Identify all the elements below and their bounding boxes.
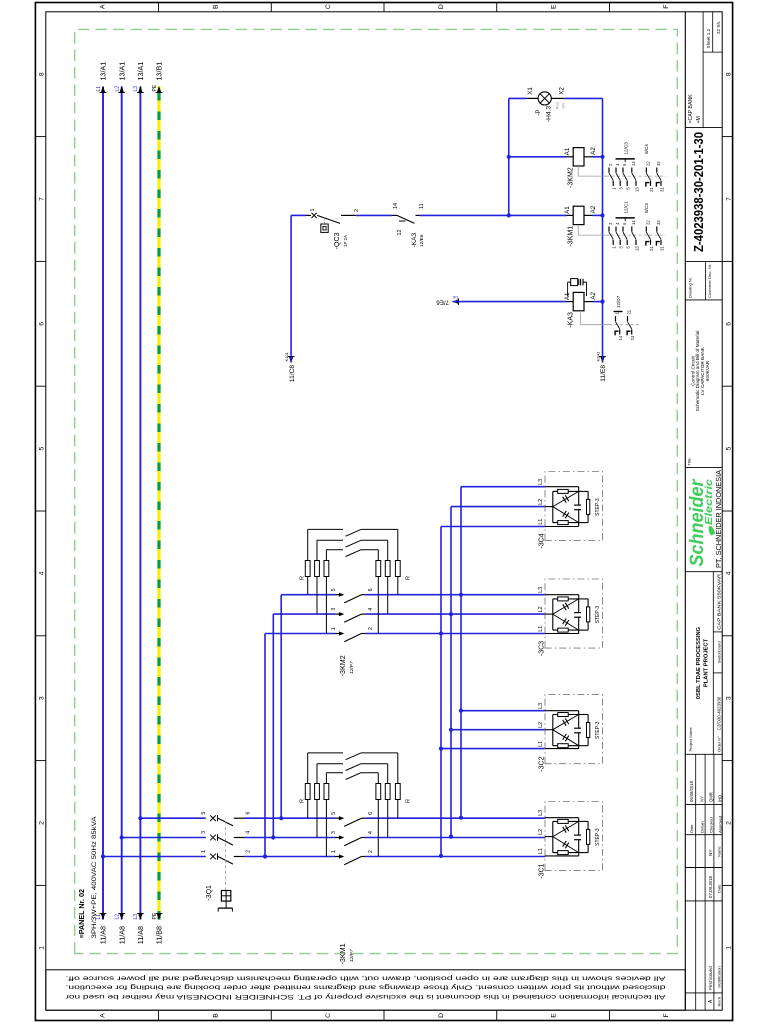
svg-text:1: 1 xyxy=(39,946,46,950)
svg-text:L3: L3 xyxy=(538,810,544,816)
svg-text:L3: L3 xyxy=(538,587,544,593)
switch -3Q1 operating handle box xyxy=(221,891,230,902)
relay -KA3 cross reference label xyxy=(614,311,623,313)
svg-text:B: B xyxy=(212,1013,219,1018)
svg-text:PE: PE xyxy=(152,912,158,919)
svg-text:13/A1: 13/A1 xyxy=(117,62,126,81)
wire bus tap to -3Q1 pole 3 xyxy=(120,835,124,839)
svg-text:Approved: Approved xyxy=(718,816,723,833)
capacitor unit -3C4 internal connections xyxy=(545,526,579,528)
svg-text:E: E xyxy=(551,1013,558,1018)
svg-text:6: 6 xyxy=(725,322,732,326)
svg-text:STEP-3: STEP-3 xyxy=(595,498,601,516)
bypass return resistor xyxy=(377,773,379,784)
feeder bus L2 to capacitor steps xyxy=(450,507,452,837)
svg-text:-QC3: -QC3 xyxy=(334,232,341,249)
contactor -3KM1 main contact 5-6 xyxy=(339,816,344,820)
svg-text:5: 5 xyxy=(39,446,46,450)
svg-text:1: 1 xyxy=(201,850,207,853)
svg-text:3: 3 xyxy=(619,246,624,249)
circuit breaker -QC3 xyxy=(306,214,311,216)
svg-text:A2: A2 xyxy=(590,291,597,299)
svg-text:L1: L1 xyxy=(538,626,544,632)
switch -3Q1 pole 3-4 xyxy=(122,837,206,839)
feeder drop to -3C4 L1 xyxy=(441,526,545,528)
svg-text:22: 22 xyxy=(646,220,651,225)
svg-text:-3C1: -3C1 xyxy=(539,863,546,878)
bus L1 left off-page arrow 11/A8 xyxy=(101,913,106,920)
capacitor unit -3C2 internal connections xyxy=(545,748,579,750)
svg-text:L1: L1 xyxy=(538,741,544,747)
bus L1 right off-page arrow 13/A1 xyxy=(101,86,106,93)
svg-text:F: F xyxy=(663,1013,670,1017)
svg-text:7: 7 xyxy=(39,197,46,201)
svg-text:K1H1: K1H1 xyxy=(595,351,600,362)
coil -3KM2 xyxy=(567,156,574,158)
L3 bus wire xyxy=(139,87,141,920)
svg-text:2: 2 xyxy=(368,850,374,853)
svg-text:A: A xyxy=(100,4,107,9)
capacitor unit -3C3 discharge resistor xyxy=(579,629,588,631)
svg-text:A1: A1 xyxy=(564,206,571,214)
contactor -3KM1 main contact 3-4 xyxy=(339,835,344,839)
feeder bus L3 to capacitor steps xyxy=(460,487,462,818)
svg-text:≡PANEL Nr. 02: ≡PANEL Nr. 02 xyxy=(77,889,86,938)
svg-text:13: 13 xyxy=(634,246,639,251)
svg-text:A1: A1 xyxy=(564,147,571,155)
svg-text:5: 5 xyxy=(725,446,732,450)
svg-text:L2: L2 xyxy=(538,722,544,728)
wire rung -KA3 coil from 7/E6 xyxy=(452,299,459,304)
capacitor unit -3C4 bottom rail with middle capacitor xyxy=(578,510,580,527)
svg-text:6: 6 xyxy=(368,812,374,815)
control rail 2 to 11/E8 xyxy=(600,356,605,363)
svg-text:14: 14 xyxy=(618,335,623,340)
svg-text:Modification: Modification xyxy=(716,966,721,987)
svg-text:12/E6: 12/E6 xyxy=(419,234,425,247)
svg-text:A2: A2 xyxy=(590,205,597,213)
bypass resistor branch xyxy=(316,800,318,838)
capacitor unit -3C1 dash-dot enclosure xyxy=(545,802,603,871)
svg-text:-3Q1: -3Q1 xyxy=(206,885,213,901)
feeder bus L1 to capacitor steps xyxy=(440,527,442,856)
bypass return resistor xyxy=(387,764,389,784)
capacitor unit -3C3 dash-dot enclosure xyxy=(545,579,603,648)
svg-text:X1: X1 xyxy=(527,87,534,95)
capacitor unit -3C3 delta capacitors xyxy=(553,614,579,630)
svg-text:STEP-3: STEP-3 xyxy=(595,828,601,846)
svg-text:2: 2 xyxy=(608,163,613,166)
svg-text:1P 2A: 1P 2A xyxy=(343,235,348,247)
L1 bus wire xyxy=(102,87,104,920)
control feed wire from 11/C8 xyxy=(289,356,294,363)
svg-text:6: 6 xyxy=(39,322,46,326)
svg-text:7/E6: 7/E6 xyxy=(436,299,449,306)
capacitor unit -3C2 discharge resistor xyxy=(579,745,588,747)
svg-text:2: 2 xyxy=(368,627,374,630)
svg-text:D8: D8 xyxy=(453,295,458,299)
svg-text:-3C2: -3C2 xyxy=(539,756,546,771)
svg-text:24: 24 xyxy=(630,335,635,340)
contactor -3KM2 main contact 3-4 xyxy=(339,612,344,616)
svg-text:6: 6 xyxy=(246,812,252,815)
svg-text:2: 2 xyxy=(354,209,360,212)
order number cells xyxy=(713,672,722,674)
svg-text:-KA3: -KA3 xyxy=(568,312,575,328)
bus PE right off-page arrow 13/B1 xyxy=(157,86,162,93)
svg-text:5: 5 xyxy=(201,812,207,815)
disclaimer text box left margin xyxy=(46,970,686,1010)
bus L2 right off-page arrow 13/A1 xyxy=(119,86,124,93)
sheet cells xyxy=(703,51,722,53)
wire -3KM1 pole 1 down to -3C1 xyxy=(366,856,546,858)
cross reference bracket and labels xyxy=(616,158,635,160)
bypass auxiliary contact xyxy=(346,529,361,536)
branch wire to -3KM2 xyxy=(271,835,275,839)
feeder drop to -3C2 L1 xyxy=(441,748,545,750)
svg-text:5: 5 xyxy=(626,187,631,190)
svg-text:Rev.N: Rev.N xyxy=(717,996,721,1006)
svg-text:R: R xyxy=(406,799,412,803)
svg-text:C2/O30-4023930: C2/O30-4023930 xyxy=(717,696,722,730)
svg-text:1: 1 xyxy=(612,187,617,190)
svg-text:11: 11 xyxy=(419,203,425,209)
svg-text:31: 31 xyxy=(659,246,664,251)
svg-text:12/C1: 12/C1 xyxy=(624,201,629,214)
svg-text:1: 1 xyxy=(331,627,337,630)
svg-text:21: 21 xyxy=(649,246,654,251)
svg-text:D: D xyxy=(438,1013,445,1018)
svg-text:D: D xyxy=(438,4,445,9)
PE bus yellow/green line xyxy=(157,87,160,920)
svg-text:L2: L2 xyxy=(538,499,544,505)
bypass resistor branch xyxy=(325,800,327,857)
bus L3 right off-page arrow 13/A1 xyxy=(138,86,143,93)
svg-text:4: 4 xyxy=(615,222,620,225)
svg-text:L2: L2 xyxy=(115,86,121,92)
svg-text:4: 4 xyxy=(39,571,46,575)
svg-text:8/C3: 8/C3 xyxy=(644,203,649,213)
svg-text:8/C4: 8/C4 xyxy=(644,144,649,154)
svg-text:06/08/2018: 06/08/2018 xyxy=(689,780,694,802)
svg-text:A2: A2 xyxy=(590,147,597,155)
svg-text:Checked: Checked xyxy=(709,817,714,833)
capacitor unit -3C4 dash-dot enclosure xyxy=(545,472,603,541)
project name section xyxy=(712,572,714,755)
branch wire to -3KM2 xyxy=(279,816,283,820)
switch -3Q1 pole 1-2 xyxy=(103,856,206,858)
svg-text:11/A8: 11/A8 xyxy=(117,926,126,944)
svg-text:6: 6 xyxy=(622,222,627,225)
capacitor unit -3C1 frame with series resistors xyxy=(552,821,554,852)
wire -3KM2 pole 3 down to -3C3 xyxy=(366,613,546,615)
svg-text:7: 7 xyxy=(725,197,732,201)
capacitor unit -3C3 internal connections xyxy=(545,633,579,635)
svg-text:32: 32 xyxy=(656,161,661,166)
capacitor unit -3C2 bottom rail with middle capacitor xyxy=(578,733,580,749)
svg-text:R: R xyxy=(300,799,306,803)
capacitor unit -3C3 bottom rail with middle capacitor xyxy=(578,617,580,633)
relay contact -KA3 12/E6 xyxy=(392,214,397,216)
svg-text:4: 4 xyxy=(368,831,374,834)
svg-text:Title: Title xyxy=(686,457,691,465)
capacitor unit -3C1 bottom rail with middle capacitor xyxy=(578,840,580,856)
cross reference bracket and labels xyxy=(616,217,635,219)
title section xyxy=(685,299,722,301)
svg-text:32: 32 xyxy=(656,220,661,225)
svg-text:1: 1 xyxy=(612,246,617,249)
bypass resistor branch xyxy=(307,800,309,819)
svg-text:PLANT PROJECT: PLANT PROJECT xyxy=(704,638,710,687)
svg-text:11/E8: 11/E8 xyxy=(600,365,607,382)
title block top edge xyxy=(684,12,686,1010)
drawing number section xyxy=(685,260,722,262)
svg-text:NY: NY xyxy=(708,850,713,856)
svg-text:5: 5 xyxy=(331,812,337,815)
L2 bus wire xyxy=(121,87,123,920)
svg-text:L3: L3 xyxy=(538,703,544,709)
svg-text:Drawn: Drawn xyxy=(699,821,704,833)
wire bus tap to -3Q1 pole 1 xyxy=(101,854,105,858)
svg-text:3: 3 xyxy=(39,696,46,700)
wire -QC3 to -KA3 contact xyxy=(356,214,392,216)
wire -3Q1 to -3KM1 pole 1 xyxy=(244,856,335,858)
svg-text:-3C3: -3C3 xyxy=(539,641,546,656)
bypass auxiliary contact xyxy=(346,540,361,547)
bypass resistor branch xyxy=(316,577,318,615)
svg-text:14: 14 xyxy=(631,220,636,225)
bypass auxiliary contact xyxy=(346,753,361,760)
svg-text:Project Name: Project Name xyxy=(688,726,693,751)
svg-text:1: 1 xyxy=(331,850,337,853)
svg-text:L2: L2 xyxy=(538,606,544,612)
svg-text:2: 2 xyxy=(608,222,613,225)
capacitor unit -3C2 frame with series resistors xyxy=(552,715,554,746)
control rail 1 xyxy=(508,98,510,215)
svg-text:3: 3 xyxy=(725,696,732,700)
relay -KA3 contact cross reference table xyxy=(581,313,609,325)
wire rung -3KM2 coil xyxy=(509,156,567,158)
svg-text:6: 6 xyxy=(622,163,627,166)
svg-text:13/B1: 13/B1 xyxy=(155,62,164,81)
svg-text:Name: Name xyxy=(716,846,721,857)
svg-text:14: 14 xyxy=(631,161,636,166)
svg-text:5: 5 xyxy=(331,588,337,591)
bypass auxiliary contact xyxy=(346,764,361,771)
svg-text:+M: +M xyxy=(696,116,702,123)
svg-text:21: 21 xyxy=(627,309,632,314)
bypass auxiliary contact xyxy=(346,773,361,780)
bypass return resistor xyxy=(397,529,399,560)
svg-text:ON: ON xyxy=(561,103,565,109)
svg-text:22: 22 xyxy=(646,161,651,166)
svg-text:IHD: IHD xyxy=(718,795,723,802)
svg-text:11/A8: 11/A8 xyxy=(136,926,145,944)
breaker -QC3 thermal element xyxy=(321,224,328,232)
svg-text:=CAP BANK: =CAP BANK xyxy=(688,94,694,124)
svg-text:-3KM2: -3KM2 xyxy=(338,655,347,676)
svg-text:4: 4 xyxy=(725,571,732,575)
svg-text:L1: L1 xyxy=(96,914,102,920)
svg-text:PT. SCHNEIDER INDONESIA: PT. SCHNEIDER INDONESIA xyxy=(714,469,723,568)
capacitor unit -3C4 frame with series resistors xyxy=(552,491,554,522)
svg-text:CAP BANK 550KVAR: CAP BANK 550KVAR xyxy=(717,574,722,630)
svg-text:13: 13 xyxy=(634,187,639,192)
function designation box =CAP BANK +M xyxy=(685,127,722,129)
svg-text:3: 3 xyxy=(201,831,207,834)
svg-text:8: 8 xyxy=(39,72,46,76)
contactor -3KM1 main contact 1-2 xyxy=(339,854,344,858)
bypass resistor branch xyxy=(307,577,309,595)
svg-text:F: F xyxy=(663,5,670,9)
svg-text:L2: L2 xyxy=(115,914,121,920)
svg-text:-3KM1: -3KM1 xyxy=(338,943,347,964)
svg-text:X2: X2 xyxy=(558,87,565,95)
svg-text:Red: Red xyxy=(556,102,560,109)
svg-text:L1: L1 xyxy=(96,86,102,92)
svg-text:disclosed without its prior wr: disclosed without its prior written cons… xyxy=(65,984,665,991)
svg-text:3: 3 xyxy=(619,187,624,190)
svg-text:3: 3 xyxy=(331,831,337,834)
svg-text:L1: L1 xyxy=(538,848,544,854)
svg-text:E: E xyxy=(551,4,558,9)
contactor -3KM2 main contact 1-2 xyxy=(339,631,344,635)
svg-text:QMR: QMR xyxy=(709,792,714,802)
wire -3Q1 to -3KM1 pole 3 xyxy=(244,837,335,839)
switch -3Q1 handle bar xyxy=(218,907,232,909)
svg-text:2: 2 xyxy=(39,821,46,825)
svg-text:12: 12 xyxy=(397,230,403,236)
svg-text:0SBL TDAE PROCESSING: 0SBL TDAE PROCESSING xyxy=(696,626,702,699)
svg-text:NY: NY xyxy=(699,796,704,802)
svg-text:4: 4 xyxy=(246,831,252,834)
switch -3Q1 mechanism dashed link xyxy=(225,818,227,890)
branch wire to -3KM2 xyxy=(263,854,267,858)
svg-text:11/A8: 11/A8 xyxy=(99,926,108,944)
svg-text:Switchboard: Switchboard xyxy=(717,641,722,663)
coil -3KM1 xyxy=(567,214,574,216)
contact cross reference table xyxy=(578,225,606,236)
svg-text:A: A xyxy=(708,999,714,1003)
svg-text:3: 3 xyxy=(331,608,337,611)
coil -KA3 xyxy=(567,301,574,303)
svg-text:14: 14 xyxy=(393,203,399,209)
svg-text:-P: -P xyxy=(535,110,542,116)
wire -KA3 contact to rail junction xyxy=(420,214,567,216)
svg-text:5: 5 xyxy=(626,246,631,249)
svg-text:-H4.3: -H4.3 xyxy=(546,106,553,122)
feeder drop to -3C2 L3 xyxy=(461,710,545,712)
svg-text:PE: PE xyxy=(152,84,158,91)
svg-text:Sheet 1.2: Sheet 1.2 xyxy=(706,28,711,48)
bus L2 left off-page arrow 11/A8 xyxy=(119,913,124,920)
wire -3KM2 pole 1 down to -3C3 xyxy=(366,633,546,635)
svg-text:A: A xyxy=(100,1013,107,1018)
svg-text:6: 6 xyxy=(368,588,374,591)
svg-text:12/P7: 12/P7 xyxy=(349,949,355,962)
svg-text:2: 2 xyxy=(246,850,252,853)
svg-text:2: 2 xyxy=(725,821,732,825)
capacitor unit -3C4 discharge resistor xyxy=(579,522,588,524)
svg-text:L1: L1 xyxy=(538,519,544,525)
svg-text:11/B8: 11/B8 xyxy=(155,926,164,944)
svg-text:-KA3: -KA3 xyxy=(411,233,418,248)
wire bus tap to -3Q1 pole 5 xyxy=(138,816,142,820)
svg-text:All technical information cont: All technical information contained in t… xyxy=(64,993,665,1000)
svg-text:STEP-3: STEP-3 xyxy=(595,606,601,624)
svg-text:Date: Date xyxy=(689,824,694,833)
feeder drop to -3C2 L2 xyxy=(451,729,545,731)
svg-text:L3: L3 xyxy=(133,86,139,92)
svg-text:All devices shown in this diag: All devices shown in this diagram are in… xyxy=(65,975,665,982)
svg-text:31: 31 xyxy=(659,187,664,192)
revision table xyxy=(685,992,722,994)
bypass return resistor xyxy=(397,753,399,784)
svg-text:L3: L3 xyxy=(133,914,139,920)
bypass auxiliary contact xyxy=(346,550,361,557)
svg-text:L2: L2 xyxy=(538,829,544,835)
svg-text:13/A1: 13/A1 xyxy=(99,62,108,81)
svg-text:12/P7: 12/P7 xyxy=(349,661,355,674)
feeder drop to -3C4 L3 xyxy=(461,486,545,488)
feeder drop to -3C4 L2 xyxy=(451,506,545,508)
suppressor module on -KA3 coil xyxy=(571,279,578,286)
svg-text:Date: Date xyxy=(716,884,721,893)
contact cross reference table xyxy=(578,166,606,176)
bypass return resistor xyxy=(377,550,379,561)
capacitor unit -3C1 discharge resistor xyxy=(579,852,588,854)
svg-text:-3KM2: -3KM2 xyxy=(568,167,575,188)
svg-text:Customer Doc. Nr.: Customer Doc. Nr. xyxy=(708,264,712,298)
wire -3KM2 pole 5 down to -3C3 xyxy=(366,594,546,596)
svg-text:21: 21 xyxy=(649,187,654,192)
svg-text:Drawing Nr.: Drawing Nr. xyxy=(687,277,692,298)
bypass return resistor xyxy=(387,540,389,560)
svg-text:12/C3: 12/C3 xyxy=(624,142,629,155)
svg-text:4: 4 xyxy=(615,163,620,166)
capacitor unit -3C4 delta capacitors xyxy=(553,507,579,523)
svg-text:STEP-3: STEP-3 xyxy=(595,721,601,739)
svg-text:11/C8: 11/C8 xyxy=(289,365,296,382)
svg-text:C: C xyxy=(325,1013,332,1018)
svg-text:Order N°: Order N° xyxy=(717,736,722,752)
svg-text:R: R xyxy=(406,576,412,580)
wire -3Q1 to -3KM1 pole 5 xyxy=(244,817,335,819)
bus L3 left off-page arrow 11/A8 xyxy=(138,913,143,920)
capacitor unit -3C1 internal connections xyxy=(545,855,579,857)
svg-text:B: B xyxy=(212,4,219,9)
svg-text:-3C4: -3C4 xyxy=(539,533,546,548)
bypass resistor branch xyxy=(325,577,327,634)
svg-text:L3: L3 xyxy=(538,479,544,485)
capacitor unit -3C2 delta capacitors xyxy=(553,730,579,746)
contactor -3KM2 main contact 5-6 xyxy=(339,593,344,597)
svg-text:13/A1: 13/A1 xyxy=(136,62,145,81)
svg-text:Z-4023938-30-201-1-30: Z-4023938-30-201-1-30 xyxy=(691,132,706,252)
wire -3KM1 pole 3 down to -3C1 xyxy=(366,837,546,839)
Schneider Electric logo xyxy=(685,466,722,468)
svg-text:-3KM1: -3KM1 xyxy=(568,226,575,247)
svg-text:4: 4 xyxy=(368,608,374,611)
indicator lamp -H4.3 xyxy=(509,97,527,99)
capacitor unit -3C2 dash-dot enclosure xyxy=(545,695,603,764)
svg-text:1: 1 xyxy=(725,946,732,950)
svg-text:600KVAR: 600KVAR xyxy=(705,360,710,381)
svg-text:K101: K101 xyxy=(284,351,289,361)
capacitor unit -3C3 frame with series resistors xyxy=(552,599,554,630)
panel boundary dashed rectangle =PANEL Nr.02 xyxy=(75,29,678,953)
wire -3KM1 pole 5 down to -3C1 xyxy=(366,817,546,819)
